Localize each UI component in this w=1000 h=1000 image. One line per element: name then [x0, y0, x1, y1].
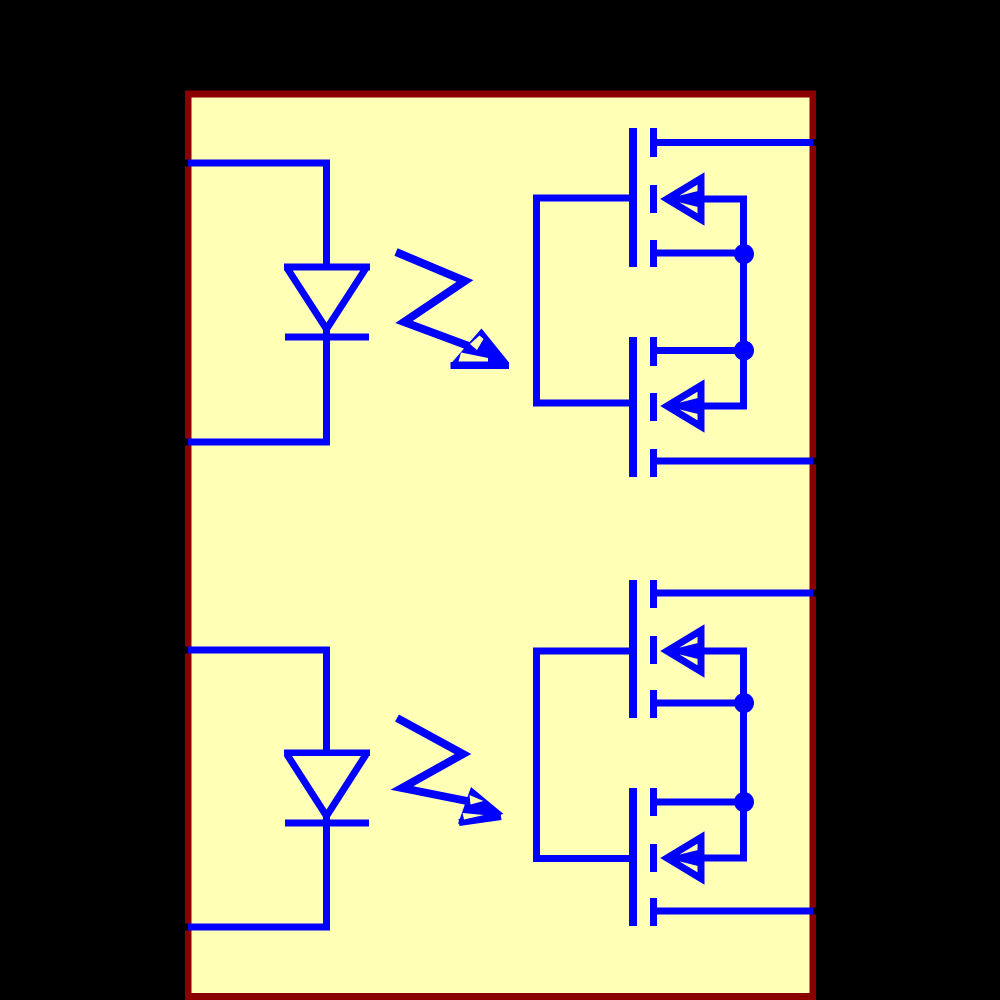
wire: Q3 body lead [666, 648, 747, 655]
wire: LED2 cathode vertical [323, 816, 330, 931]
wire: gate bus loop 2 [533, 648, 632, 863]
wire: LED1 anode vertical [323, 161, 330, 267]
wire: Q3 source [653, 700, 744, 707]
transistor Q1 (upper MOSFET, section 1) [629, 128, 702, 267]
wire: Q4 source [653, 799, 744, 806]
transistor Q3 (upper MOSFET, section 2) [629, 580, 702, 718]
LED D1 [284, 264, 370, 341]
junction: Q3 source node [734, 693, 754, 713]
wire: Q1 body lead [666, 196, 747, 203]
wire: Q1 drain to right terminal [653, 139, 813, 146]
junction: Q4 source node [734, 792, 754, 812]
transistor Q4 (lower MOSFET, section 2) [629, 788, 702, 926]
package outline U1 (body with border) [185, 91, 816, 1000]
wire: LED1 cathode vertical [323, 329, 330, 446]
wire: Q2 source [653, 347, 744, 354]
wire: gate bus loop 1 (top horizontal, vertical, bottom horizontal) [533, 195, 632, 407]
wire: Q4 drain to right terminal [653, 908, 813, 915]
wire: Q3 drain to right terminal [653, 590, 813, 597]
wire: Q4 body lead [666, 855, 747, 862]
wire: common source/body vertical 2 [740, 648, 747, 862]
wire: LED1 bottom horizontal [185, 439, 188, 446]
LED D2 [284, 750, 370, 827]
junction: Q2 source node [734, 341, 754, 361]
light arrow 1 (LED emission zigzag) [396, 252, 509, 366]
transistor Q2 (lower MOSFET, section 1) [629, 337, 702, 477]
wire: Q1 source [653, 250, 744, 257]
light arrow 2 (LED emission zigzag) [397, 718, 504, 824]
wire: LED2 anode vertical [323, 648, 330, 752]
wire: Q2 body lead [666, 403, 747, 410]
junction: Q1 source node [734, 244, 754, 264]
wire: common source/body vertical 1 [740, 196, 747, 410]
wire: LED1 anode top horizontal [185, 160, 188, 167]
wire: Q2 drain to right terminal [653, 458, 813, 465]
wire: LED2 anode top horizontal [185, 647, 188, 654]
wire: LED2 bottom horizontal [185, 924, 188, 931]
